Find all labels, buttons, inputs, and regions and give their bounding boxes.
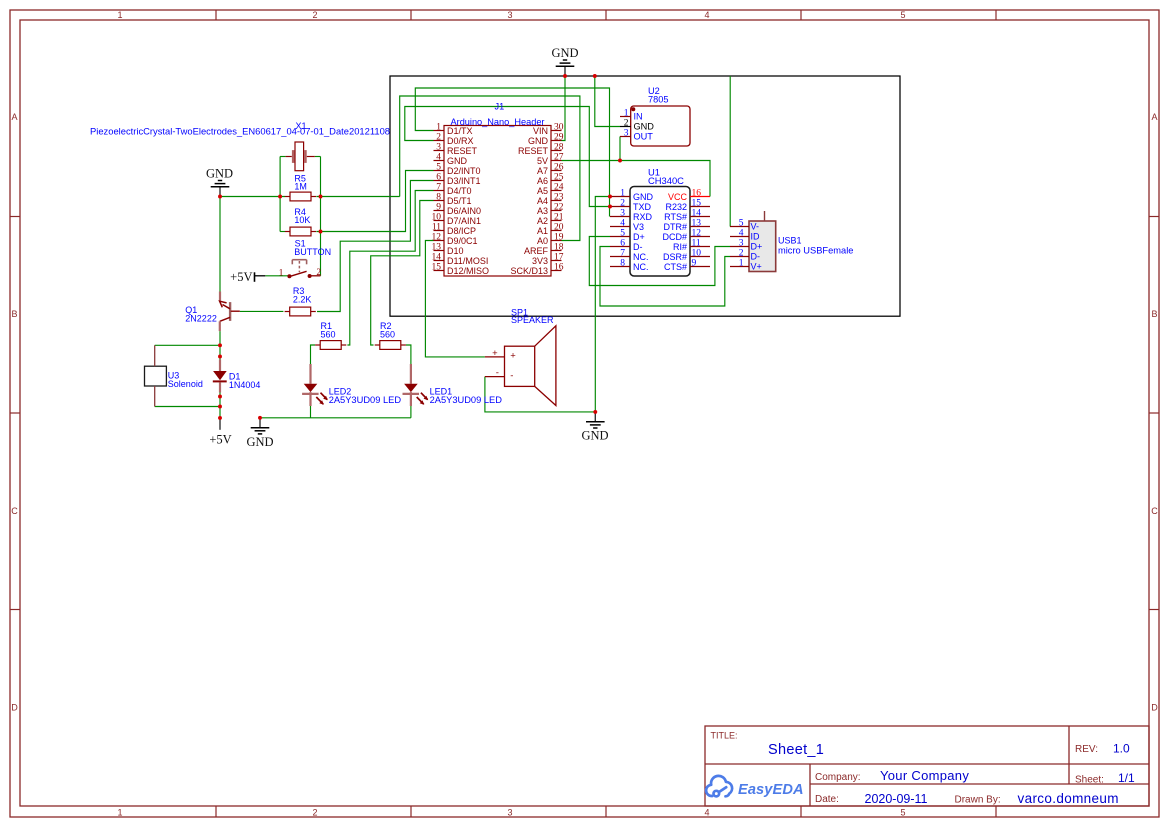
svg-text:varco.domneum: varco.domneum: [1018, 791, 1119, 806]
svg-text:D: D: [1151, 703, 1158, 713]
svg-text:BUTTON: BUTTON: [294, 247, 331, 257]
svg-text:V3: V3: [633, 222, 644, 232]
svg-text:J1: J1: [495, 101, 505, 111]
svg-text:2: 2: [739, 249, 744, 259]
svg-text:D-: D-: [633, 242, 643, 252]
svg-text:D9/0C1: D9/0C1: [447, 236, 478, 246]
svg-text:13: 13: [692, 219, 702, 229]
svg-text:17: 17: [554, 253, 564, 263]
svg-text:25: 25: [554, 173, 564, 183]
svg-text:AREF: AREF: [524, 246, 549, 256]
svg-text:9: 9: [436, 203, 441, 213]
svg-text:Date:: Date:: [815, 794, 839, 805]
svg-text:D11/MOSI: D11/MOSI: [447, 256, 488, 266]
svg-text:5: 5: [900, 10, 905, 20]
svg-text:10: 10: [432, 213, 442, 223]
svg-text:8: 8: [620, 259, 625, 269]
svg-text:EasyEDA: EasyEDA: [738, 782, 804, 798]
svg-text:2A5Y3UD09 LED: 2A5Y3UD09 LED: [329, 395, 402, 405]
svg-text:PiezoelectricCrystal-TwoElectr: PiezoelectricCrystal-TwoElectrodes_EN606…: [90, 126, 390, 137]
svg-text:1: 1: [624, 109, 629, 119]
svg-text:A3: A3: [537, 206, 548, 216]
svg-text:1: 1: [436, 123, 441, 133]
svg-text:VIN: VIN: [533, 126, 548, 136]
svg-text:D0/RX: D0/RX: [447, 136, 474, 146]
svg-text:5V: 5V: [537, 156, 548, 166]
svg-text:SPEAKER: SPEAKER: [511, 315, 554, 325]
svg-text:3: 3: [507, 808, 512, 818]
svg-text:27: 27: [554, 153, 564, 163]
svg-text:560: 560: [321, 330, 336, 340]
svg-text:3: 3: [739, 239, 744, 249]
svg-text:CTS#: CTS#: [664, 262, 687, 272]
svg-text:24: 24: [554, 183, 564, 193]
svg-text:A: A: [11, 112, 17, 122]
svg-text:D-: D-: [751, 252, 761, 262]
svg-text:1N4004: 1N4004: [229, 380, 261, 390]
svg-text:GND: GND: [206, 167, 233, 181]
svg-text:22: 22: [554, 203, 564, 213]
svg-text:19: 19: [554, 233, 564, 243]
svg-text:3: 3: [620, 209, 625, 219]
svg-text:Your Company: Your Company: [880, 768, 969, 783]
svg-text:1: 1: [739, 259, 744, 269]
svg-text:RI#: RI#: [673, 242, 687, 252]
svg-text:4: 4: [704, 808, 709, 818]
svg-text:VCC: VCC: [668, 192, 688, 202]
svg-text:NC.: NC.: [633, 252, 649, 262]
svg-text:3: 3: [507, 10, 512, 20]
svg-text:-: -: [510, 371, 513, 382]
svg-text:D12/MISO: D12/MISO: [447, 266, 489, 276]
svg-text:TITLE:: TITLE:: [711, 731, 738, 741]
svg-text:4: 4: [436, 153, 441, 163]
svg-text:3: 3: [624, 129, 629, 139]
svg-text:1/1: 1/1: [1118, 771, 1135, 785]
svg-text:D10: D10: [447, 246, 464, 256]
svg-text:6: 6: [620, 239, 625, 249]
svg-text:7: 7: [436, 183, 441, 193]
svg-text:1: 1: [117, 808, 122, 818]
svg-text:2: 2: [312, 10, 317, 20]
svg-text:4: 4: [704, 10, 709, 20]
svg-text:A5: A5: [537, 186, 548, 196]
svg-text:5: 5: [900, 808, 905, 818]
svg-text:23: 23: [554, 193, 564, 203]
svg-text:11: 11: [432, 223, 441, 233]
svg-text:GND: GND: [246, 435, 273, 449]
svg-text:A7: A7: [537, 166, 548, 176]
svg-text:2A5Y3UD09 LED: 2A5Y3UD09 LED: [430, 395, 503, 405]
svg-text:8: 8: [436, 193, 441, 203]
svg-text:Company:: Company:: [815, 772, 861, 783]
svg-text:12: 12: [692, 229, 702, 239]
svg-text:V+: V+: [751, 262, 762, 272]
svg-text:OUT: OUT: [634, 132, 654, 142]
svg-text:6: 6: [436, 173, 441, 183]
svg-text:14: 14: [432, 253, 442, 263]
svg-text:13: 13: [432, 243, 442, 253]
svg-text:DTR#: DTR#: [663, 222, 687, 232]
svg-text:RTS#: RTS#: [664, 212, 687, 222]
svg-text:D+: D+: [751, 242, 763, 252]
svg-text:D8/ICP: D8/ICP: [447, 226, 476, 236]
svg-text:GND: GND: [634, 122, 655, 132]
svg-text:RESET: RESET: [518, 146, 549, 156]
svg-text:2.2K: 2.2K: [293, 295, 312, 305]
svg-text:26: 26: [554, 163, 564, 173]
svg-text:A0: A0: [537, 236, 548, 246]
svg-text:15: 15: [432, 263, 442, 273]
svg-text:D1/TX: D1/TX: [447, 126, 473, 136]
svg-text:V-: V-: [751, 222, 760, 232]
svg-text:D5/T1: D5/T1: [447, 196, 472, 206]
svg-text:2: 2: [624, 119, 629, 129]
svg-text:10: 10: [692, 249, 702, 259]
svg-text:Sheet_1: Sheet_1: [768, 742, 824, 758]
svg-text:18: 18: [554, 243, 564, 253]
svg-text:NC.: NC.: [633, 262, 649, 272]
svg-text:10K: 10K: [294, 215, 310, 225]
svg-text:14: 14: [692, 209, 702, 219]
svg-text:A2: A2: [537, 216, 548, 226]
svg-text:DCD#: DCD#: [662, 232, 687, 242]
svg-text:Solenoid: Solenoid: [168, 379, 203, 389]
svg-text:7805: 7805: [648, 95, 668, 105]
svg-text:1: 1: [620, 189, 625, 199]
svg-text:GND: GND: [528, 136, 549, 146]
svg-text:1: 1: [279, 269, 284, 279]
svg-text:USB1: USB1: [778, 236, 802, 246]
svg-text:11: 11: [692, 239, 701, 249]
svg-text:GND: GND: [551, 46, 578, 60]
svg-text:3: 3: [436, 143, 441, 153]
svg-text:GND: GND: [581, 429, 608, 443]
svg-text:12: 12: [432, 233, 442, 243]
svg-text:B: B: [1151, 309, 1157, 319]
svg-text:micro USBFemale: micro USBFemale: [778, 246, 853, 256]
svg-text:RESET: RESET: [447, 146, 478, 156]
svg-text:2: 2: [436, 133, 441, 143]
svg-text:5: 5: [436, 163, 441, 173]
svg-text:DSR#: DSR#: [663, 252, 687, 262]
svg-text:C: C: [1151, 506, 1158, 516]
svg-text:Drawn By:: Drawn By:: [955, 795, 1001, 806]
svg-text:IN: IN: [634, 112, 643, 122]
svg-text:D6/AIN0: D6/AIN0: [447, 206, 481, 216]
svg-text:REV:: REV:: [1075, 744, 1098, 755]
svg-text:+5V: +5V: [209, 433, 231, 447]
svg-text:30: 30: [554, 123, 564, 133]
svg-text:B: B: [11, 309, 17, 319]
svg-text:R232: R232: [665, 202, 687, 212]
svg-text:7: 7: [620, 249, 625, 259]
svg-text:A1: A1: [537, 226, 548, 236]
svg-text:2: 2: [312, 808, 317, 818]
svg-text:CH340C: CH340C: [648, 175, 684, 186]
svg-text:20: 20: [554, 223, 564, 233]
svg-text:Arduino_Nano_Header: Arduino_Nano_Header: [451, 117, 545, 127]
svg-text:SCK/D13: SCK/D13: [510, 266, 548, 276]
svg-text:RXD: RXD: [633, 212, 653, 222]
svg-text:+5V: +5V: [230, 270, 252, 284]
svg-text:Sheet:: Sheet:: [1075, 775, 1104, 786]
svg-text:A6: A6: [537, 176, 548, 186]
svg-text:A: A: [1151, 112, 1157, 122]
svg-text:5: 5: [739, 219, 744, 229]
svg-text:9: 9: [692, 259, 697, 269]
svg-text:21: 21: [554, 213, 564, 223]
svg-text:C: C: [11, 506, 18, 516]
svg-text:-: -: [496, 367, 499, 378]
svg-text:D7/AIN1: D7/AIN1: [447, 216, 481, 226]
svg-text:2020-09-11: 2020-09-11: [865, 792, 928, 806]
svg-text:560: 560: [380, 330, 395, 340]
svg-text:29: 29: [554, 133, 564, 143]
svg-text:1: 1: [117, 10, 122, 20]
svg-text:4: 4: [620, 219, 625, 229]
svg-text:15: 15: [692, 199, 702, 209]
svg-text:+: +: [492, 348, 498, 359]
svg-text:GND: GND: [633, 192, 654, 202]
svg-text:ID: ID: [751, 232, 761, 242]
svg-text:3V3: 3V3: [532, 256, 548, 266]
svg-text:2N2222: 2N2222: [185, 314, 217, 324]
svg-text:2: 2: [316, 268, 321, 278]
svg-text:2: 2: [620, 199, 625, 209]
svg-text:16: 16: [554, 263, 564, 273]
svg-text:TXD: TXD: [633, 202, 652, 212]
svg-text:D2/INT0: D2/INT0: [447, 166, 481, 176]
svg-text:28: 28: [554, 143, 564, 153]
svg-text:D+: D+: [633, 232, 645, 242]
svg-text:GND: GND: [447, 156, 468, 166]
svg-text:5: 5: [620, 229, 625, 239]
svg-text:4: 4: [739, 229, 744, 239]
svg-text:D4/T0: D4/T0: [447, 186, 472, 196]
svg-text:+: +: [510, 350, 516, 361]
svg-text:1.0: 1.0: [1113, 742, 1130, 756]
svg-text:D: D: [11, 703, 18, 713]
svg-text:A4: A4: [537, 196, 548, 206]
svg-text:16: 16: [692, 189, 702, 199]
svg-text:1M: 1M: [294, 182, 307, 192]
svg-text:D3/INT1: D3/INT1: [447, 176, 481, 186]
